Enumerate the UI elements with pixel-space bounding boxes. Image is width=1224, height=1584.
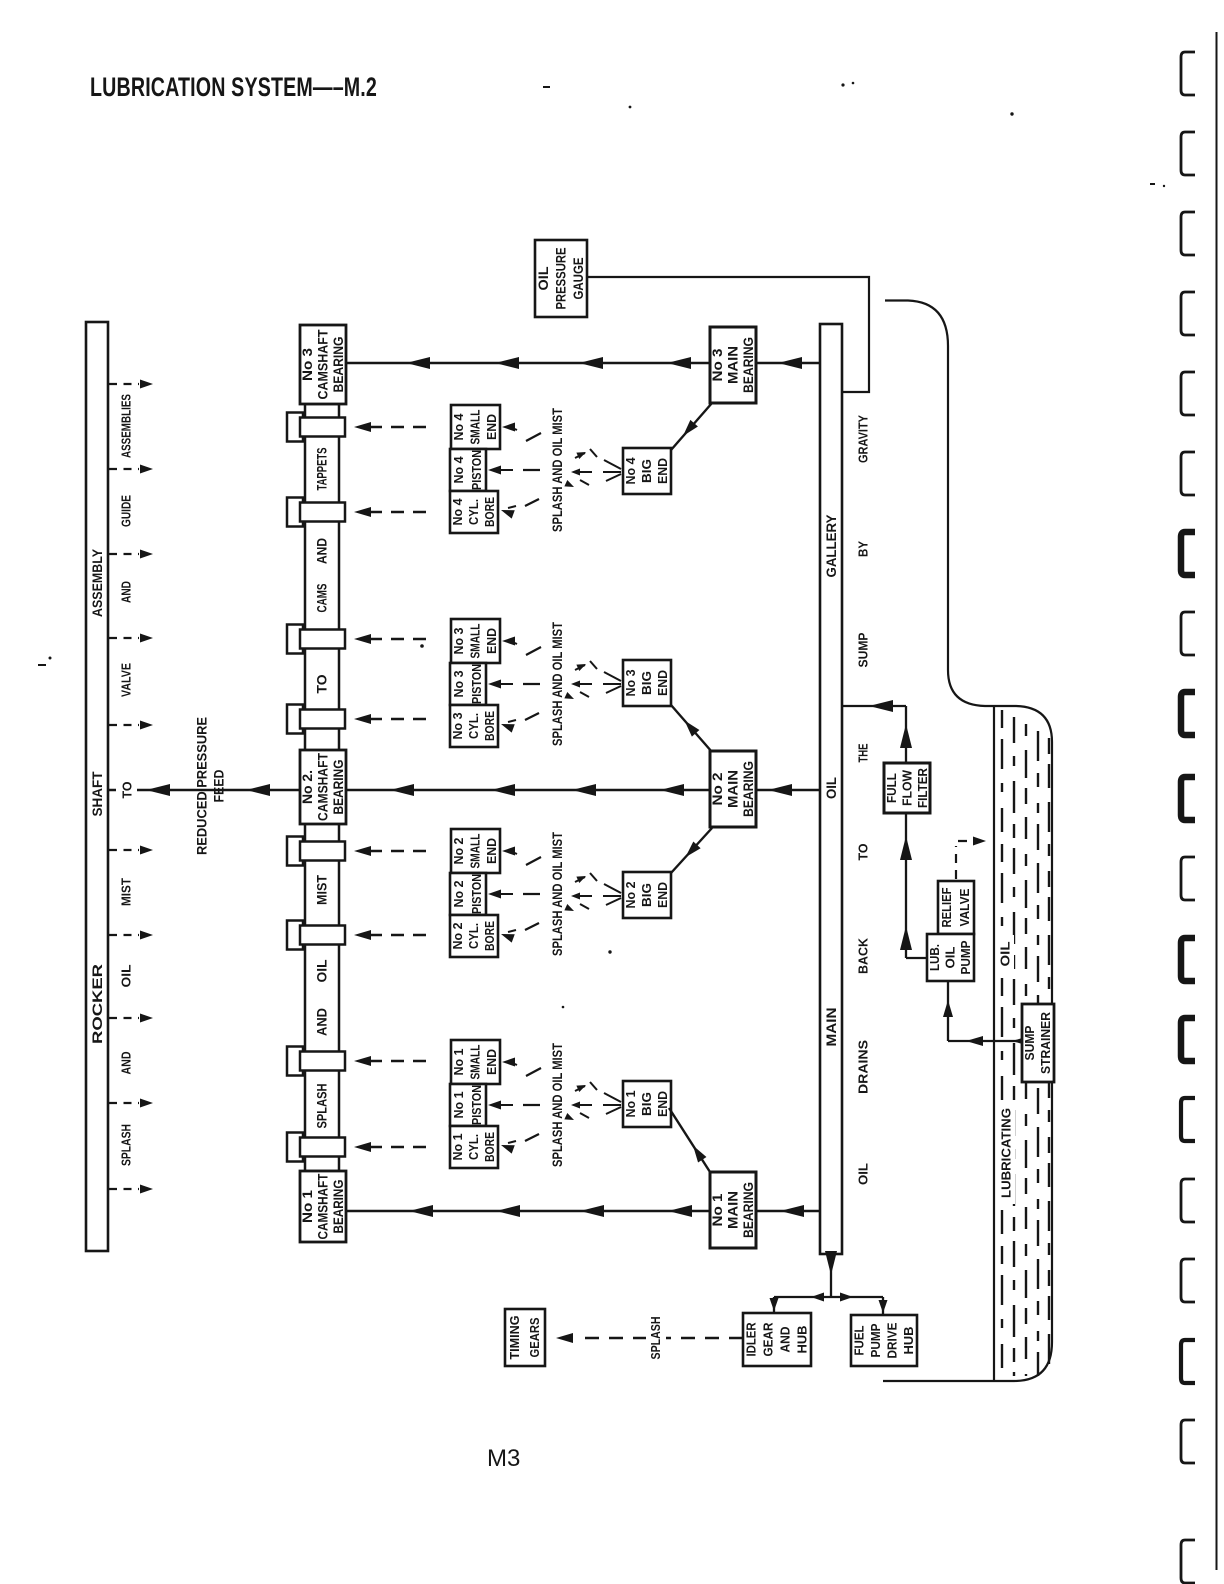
svg-text:CYL.: CYL. (467, 923, 481, 949)
svg-text:OIL: OIL (944, 946, 958, 968)
svg-text:OIL: OIL (823, 777, 839, 799)
svg-text:IDLER: IDLER (745, 1323, 759, 1357)
camshaft bearing No 1 box (300, 1171, 346, 1242)
svg-text:FUEL: FUEL (852, 1325, 866, 1355)
svg-text:REDUCED PRESSURE: REDUCED PRESSURE (195, 717, 210, 855)
No 3 piston box (450, 663, 486, 705)
svg-text:SPLASH AND OIL MIST: SPLASH AND OIL MIST (549, 832, 565, 956)
svg-text:CAMSHAFT: CAMSHAFT (316, 329, 331, 400)
timing gears box (505, 1309, 545, 1366)
svg-text:VALVE: VALVE (119, 663, 134, 697)
full flow filter box (884, 763, 930, 813)
svg-text:No 2: No 2 (624, 881, 638, 908)
svg-text:TO: TO (315, 675, 330, 694)
wire: mist arrow to valve gear 7 (109, 931, 153, 940)
wire: mist arrow to valve gear 6 (109, 846, 153, 855)
svg-text:GEAR: GEAR (762, 1323, 776, 1357)
splash fan from No 1 big end (603, 1093, 621, 1114)
svg-text:No 3: No 3 (624, 669, 638, 696)
No 4 piston box (450, 449, 486, 491)
svg-text:CYL.: CYL. (467, 499, 481, 525)
No 3 small end box (451, 619, 500, 663)
wire: mist arrow to valve gear 10 (109, 1185, 153, 1194)
svg-text:BORE: BORE (483, 1132, 497, 1162)
cam lobe/journal 5 (287, 837, 345, 866)
svg-text:MIST: MIST (315, 874, 330, 905)
svg-text:DRAINS: DRAINS (856, 1040, 871, 1094)
svg-text:AND: AND (315, 538, 330, 564)
wire: splash arrow to journal 5 (354, 846, 430, 856)
svg-text:LUBRICATION SYSTEM—–M.2: LUBRICATION SYSTEM—–M.2 (90, 72, 377, 102)
svg-text:No 3: No 3 (452, 627, 466, 654)
splash fan from No 4 big end (603, 460, 621, 481)
wire: splash arrow to journal 7 (354, 1056, 430, 1066)
svg-text:No 2: No 2 (451, 922, 465, 949)
wire: No1 main bearing to No1 big end (669, 1108, 710, 1172)
svg-text:MIST: MIST (119, 878, 134, 906)
label: splash and oil mist (No 1) (549, 1043, 565, 1167)
svg-text:OIL: OIL (315, 960, 330, 983)
sump strainer box (1022, 1004, 1054, 1082)
camshaft bearing No 3 box (300, 325, 346, 404)
sump left wall (993, 707, 995, 1381)
svg-text:HUB: HUB (796, 1326, 810, 1354)
svg-text:No 3: No 3 (710, 348, 725, 382)
wire: oil drain to sump curve (883, 301, 1052, 1382)
svg-text:BEARING: BEARING (741, 337, 756, 393)
svg-text:SMALL: SMALL (469, 409, 483, 444)
svg-text:No 2: No 2 (452, 880, 466, 907)
svg-text:GUIDE: GUIDE (119, 495, 134, 527)
svg-text:BACK: BACK (856, 937, 871, 974)
svg-text:SUMP: SUMP (1023, 1026, 1037, 1061)
svg-text:PUMP: PUMP (869, 1324, 883, 1358)
svg-text:FILTER: FILTER (915, 767, 930, 808)
svg-text:AND: AND (315, 1008, 330, 1036)
svg-text:TIMING: TIMING (508, 1316, 522, 1360)
svg-text:RELIEF: RELIEF (940, 887, 954, 927)
svg-text:BIG: BIG (640, 459, 654, 483)
svg-text:OIL: OIL (119, 964, 134, 987)
svg-text:GAUGE: GAUGE (571, 258, 586, 300)
main bearing No 1 box (710, 1172, 756, 1248)
svg-text:No 2: No 2 (710, 773, 725, 806)
svg-text:CAMSHAFT: CAMSHAFT (316, 752, 331, 821)
wire: mist arrow to valve gear 4 (109, 634, 153, 643)
No 4 cylinder bore box (450, 491, 498, 533)
svg-text:MAIN: MAIN (726, 770, 741, 808)
binding marks column (1181, 52, 1195, 1583)
svg-text:BEARING: BEARING (741, 761, 756, 817)
wire: mist arrow to valve gear 3 (109, 550, 153, 559)
svg-text:BY: BY (856, 541, 871, 557)
svg-text:LUBRICATING: LUBRICATING (999, 1108, 1014, 1198)
idler gear and hub box (743, 1313, 811, 1366)
svg-text:No 4: No 4 (452, 413, 466, 440)
svg-text:CAMSHAFT: CAMSHAFT (316, 1173, 331, 1240)
fuel pump drive hub box (851, 1315, 917, 1366)
svg-text:VALVE: VALVE (958, 889, 972, 927)
splash mist arrows from No 1 big end (564, 1082, 597, 1123)
svg-text:No 2.: No 2. (300, 770, 315, 804)
No 4 big end box (623, 448, 671, 494)
rocker shaft assembly bar (86, 322, 108, 1251)
svg-text:SMALL: SMALL (469, 833, 483, 868)
svg-text:No 1: No 1 (624, 1090, 638, 1117)
svg-text:HUB: HUB (902, 1327, 916, 1355)
page number M3 (487, 1445, 520, 1472)
svg-text:No 4: No 4 (451, 498, 465, 525)
svg-text:FEED: FEED (212, 769, 227, 802)
wire: No2 main bearing to No3 big end (671, 705, 712, 752)
svg-text:OIL: OIL (998, 941, 1013, 966)
camshaft bearing No 2 box (300, 750, 346, 824)
wire: gallery to No2 main bearing to No2 camshaft bearing (346, 784, 820, 796)
svg-text:SPLASH: SPLASH (649, 1317, 663, 1360)
No 1 big end box (623, 1081, 671, 1127)
svg-text:SUMP: SUMP (856, 632, 871, 667)
svg-text:AND: AND (119, 581, 134, 603)
wire: splash arrow to journal 3 (354, 634, 430, 644)
wire: reduced pressure feed line (108, 779, 300, 801)
svg-text:MAIN: MAIN (726, 346, 741, 384)
camshaft shaft body (305, 404, 339, 1171)
svg-text:SPLASH AND OIL MIST: SPLASH AND OIL MIST (549, 1043, 565, 1167)
svg-text:AND: AND (779, 1327, 793, 1353)
svg-text:END: END (656, 458, 670, 484)
svg-text:END: END (656, 882, 670, 908)
svg-text:PISTON: PISTON (470, 450, 484, 490)
scan noise specks (38, 82, 1165, 1009)
svg-text:PRESSURE: PRESSURE (554, 248, 569, 310)
wire: mist arrows into No 1 piston boxes (488, 1058, 541, 1154)
splash mist arrows from No 4 big end (564, 449, 597, 490)
svg-text:TAPPETS: TAPPETS (315, 448, 330, 491)
svg-text:No 3: No 3 (451, 712, 465, 739)
svg-text:BEARING: BEARING (331, 1180, 346, 1234)
svg-text:GALLERY: GALLERY (823, 514, 839, 578)
title heading (90, 72, 377, 102)
svg-text:PISTON: PISTON (470, 664, 484, 704)
wire: mist arrow to valve gear 8 (109, 1014, 153, 1023)
No 2 small end box (451, 829, 500, 873)
cam lobe/journal 2 (287, 498, 345, 527)
svg-text:BEARING: BEARING (331, 337, 346, 393)
svg-text:DRIVE: DRIVE (885, 1323, 899, 1359)
svg-text:MAIN: MAIN (726, 1191, 741, 1229)
svg-text:PISTON: PISTON (470, 874, 484, 914)
svg-text:No 2: No 2 (452, 837, 466, 864)
svg-text:STRAINER: STRAINER (1039, 1012, 1053, 1074)
No 1 cylinder bore box (450, 1126, 498, 1168)
wire: gallery to No1 main bearing to No1 camshaft bearing (346, 1205, 820, 1217)
svg-text:MAIN: MAIN (823, 1008, 839, 1047)
wire: splash arrow to journal 8 (354, 1142, 430, 1152)
wire: splash to timing gears (556, 1313, 743, 1363)
svg-text:BIG: BIG (640, 883, 654, 907)
svg-text:SPLASH AND OIL MIST: SPLASH AND OIL MIST (549, 408, 565, 532)
cam lobe/journal 1 (287, 413, 345, 442)
main oil gallery bar (820, 324, 842, 1254)
wire: No2 main bearing to No2 big end (671, 828, 712, 873)
svg-text:No 3: No 3 (300, 347, 315, 381)
svg-text:BIG: BIG (640, 671, 654, 695)
label: splash and oil mist (No 3) (549, 622, 565, 746)
svg-text:OIL: OIL (536, 267, 551, 291)
page edge line (1216, 32, 1218, 1570)
wire: splash arrow to journal 6 (354, 930, 430, 940)
svg-text:ROCKER: ROCKER (89, 964, 105, 1044)
svg-text:No 4: No 4 (624, 457, 638, 484)
wire: gallery outlet to gear hubs (770, 1251, 888, 1315)
svg-text:No 4: No 4 (452, 456, 466, 483)
cam lobe/journal 8 (287, 1133, 345, 1162)
wire: gauge line to gallery (587, 277, 869, 392)
wire: mist arrows into No 2 piston boxes (488, 847, 541, 943)
splash mist arrows from No 3 big end (564, 661, 597, 702)
svg-text:THE: THE (856, 743, 871, 762)
No 1 small end box (451, 1040, 500, 1084)
oil pressure gauge box (535, 240, 587, 317)
wire: filter to gallery (842, 700, 912, 763)
No 3 big end box (623, 660, 671, 706)
wire: strainer to pump (943, 981, 1029, 1046)
svg-text:TO: TO (120, 782, 135, 799)
label: splash and oil mist (No 4) (549, 408, 565, 532)
wire: splash arrow to journal 2 (354, 507, 430, 517)
wire: relief valve overflow to sump (956, 837, 986, 880)
label: reduced pressure feed (195, 717, 227, 855)
wire: gallery to No3 main bearing to No3 camshaft bearing (346, 357, 820, 369)
sump oil hatch lines (1002, 710, 1049, 1376)
svg-text:BEARING: BEARING (741, 1182, 756, 1238)
svg-text:END: END (656, 1091, 670, 1117)
svg-text:ASSEMBLY: ASSEMBLY (89, 548, 105, 617)
cam lobe/journal 7 (287, 1047, 345, 1076)
relief valve box (938, 881, 974, 934)
svg-text:BORE: BORE (483, 497, 497, 527)
svg-text:No 1: No 1 (451, 1133, 465, 1160)
main bearing No 2 box (710, 751, 756, 827)
wire: mist arrow to valve gear 1 (109, 380, 153, 389)
wire: mist arrow to valve gear 5 (109, 721, 153, 730)
label: lubricating oil (996, 935, 1015, 1204)
wire: splash arrow to journal 1 (354, 422, 430, 432)
label: splash and oil mist (No 2) (549, 832, 565, 956)
label: oil drains back to the sump by gravity (856, 415, 871, 1185)
No 1 piston box (450, 1084, 486, 1126)
svg-text:AND: AND (119, 1052, 134, 1075)
svg-text:GRAVITY: GRAVITY (856, 415, 871, 463)
label: splash/mist to valve and guide assemblies (119, 394, 134, 1166)
svg-text:OIL: OIL (856, 1163, 871, 1185)
No 3 cylinder bore box (450, 705, 498, 747)
svg-text:FULL: FULL (884, 773, 899, 803)
svg-text:FLOW: FLOW (900, 769, 915, 806)
svg-text:BORE: BORE (483, 921, 497, 951)
wire: mist arrow to valve gear 2 (109, 465, 153, 474)
svg-text:SMALL: SMALL (469, 1044, 483, 1079)
svg-text:SMALL: SMALL (469, 623, 483, 658)
svg-text:No 1: No 1 (300, 1189, 315, 1223)
No 2 piston box (450, 873, 486, 915)
svg-text:No 3: No 3 (452, 670, 466, 697)
splash fan from No 2 big end (603, 884, 621, 905)
svg-text:SPLASH: SPLASH (119, 1124, 134, 1166)
svg-text:GEARS: GEARS (528, 1318, 542, 1358)
svg-text:No 1: No 1 (710, 1193, 725, 1227)
svg-text:TO: TO (856, 844, 871, 861)
splash fan from No 3 big end (603, 672, 621, 693)
svg-text:No 1: No 1 (452, 1091, 466, 1118)
cam lobe/journal 4 (287, 705, 345, 734)
svg-text:PUMP: PUMP (959, 941, 973, 975)
wire: No3 main bearing to No4 big end (671, 403, 712, 450)
svg-text:CAMS: CAMS (315, 584, 330, 613)
No 2 cylinder bore box (450, 915, 498, 957)
svg-text:M3: M3 (487, 1445, 520, 1472)
splash mist arrows from No 2 big end (564, 873, 597, 914)
main bearing No 3 box (710, 327, 756, 403)
svg-text:ASSEMBLIES: ASSEMBLIES (119, 394, 134, 458)
wire: splash arrow to journal 4 (354, 714, 430, 724)
svg-text:END: END (485, 1049, 499, 1075)
svg-text:CYL.: CYL. (467, 1134, 481, 1160)
svg-text:LUB.: LUB. (928, 944, 942, 971)
lub oil pump box (927, 934, 974, 981)
svg-text:END: END (485, 838, 499, 864)
wire: mist arrow to valve gear 9 (109, 1099, 153, 1108)
wire: mist arrows into No 3 piston boxes (488, 637, 541, 733)
svg-text:SPLASH: SPLASH (315, 1084, 330, 1129)
svg-text:BORE: BORE (483, 711, 497, 741)
svg-text:END: END (656, 670, 670, 696)
svg-text:PISTON: PISTON (470, 1085, 484, 1125)
svg-text:BEARING: BEARING (331, 760, 346, 815)
No 2 big end box (623, 872, 671, 918)
svg-text:END: END (485, 414, 499, 440)
svg-text:CYL.: CYL. (467, 713, 481, 739)
svg-text:No 1: No 1 (452, 1048, 466, 1075)
cam lobe/journal 6 (287, 921, 345, 950)
wire: mist arrows into No 4 piston boxes (488, 423, 541, 519)
wire: pump to filter (900, 813, 927, 958)
No 4 small end box (451, 405, 500, 449)
svg-text:SPLASH AND OIL MIST: SPLASH AND OIL MIST (549, 622, 565, 746)
svg-text:END: END (485, 628, 499, 654)
cam lobe/journal 3 (287, 625, 345, 654)
svg-text:SHAFT: SHAFT (89, 771, 105, 816)
svg-text:BIG: BIG (640, 1092, 654, 1116)
